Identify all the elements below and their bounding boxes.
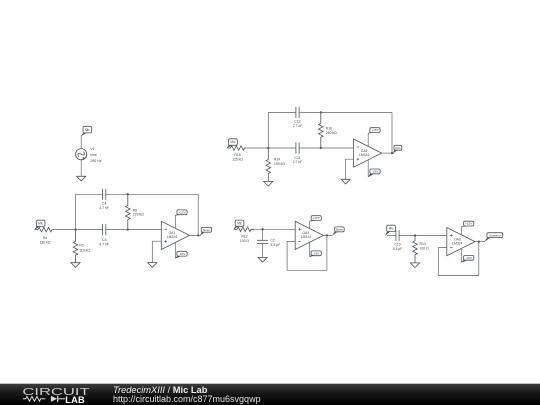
label R14 199 k&#937; xyxy=(274,158,285,166)
wire OA6 output xyxy=(475,241,485,243)
node R6 top xyxy=(127,193,129,195)
capacitor C2 xyxy=(257,240,268,243)
resistor R13 xyxy=(413,236,418,263)
label C11 2.7 nF xyxy=(293,156,303,164)
svg-text:+15V: +15V xyxy=(313,216,321,220)
svg-text:R14: R14 xyxy=(274,158,280,162)
label V1 value xyxy=(90,147,102,163)
flag -15V at OA5 xyxy=(368,169,380,177)
wire R12 to op-amp xyxy=(254,228,295,230)
wire R15 to node xyxy=(248,147,269,149)
wire top right segment xyxy=(299,111,392,113)
svg-text:290 Hz: 290 Hz xyxy=(90,159,102,163)
svg-text:Mic: Mic xyxy=(230,140,235,144)
capacitor C4 xyxy=(103,189,106,200)
label C10 3.3 &#181;F xyxy=(393,243,403,251)
wire OA6 V- supply xyxy=(460,249,462,263)
svg-text:C12: C12 xyxy=(294,120,300,124)
svg-text:R4: R4 xyxy=(43,236,47,240)
flag +15V at OA6 xyxy=(461,221,474,227)
op-amp OA6 xyxy=(447,228,475,256)
ground below R14 xyxy=(264,181,273,186)
svg-text:3.3 µF: 3.3 µF xyxy=(393,247,403,251)
wire C2 bottom lead xyxy=(262,244,264,258)
CircuitLab logo CIRCUIT xyxy=(22,387,89,398)
wire node2 to op-amp xyxy=(321,147,354,149)
wire C10 left lead xyxy=(387,235,396,237)
wire OA5 output xyxy=(382,152,394,154)
wire OA4 V+ supply xyxy=(309,221,311,228)
flag -15V at OA6 xyxy=(461,255,474,262)
wire C2 top lead xyxy=(262,229,264,240)
svg-text:http://circuitlab.com/c877mu6s: http://circuitlab.com/c877mu6svgqwp xyxy=(113,394,261,404)
ground at OA1 + input xyxy=(148,263,157,268)
wire OA6 feedback xyxy=(438,242,479,276)
flag Mic (input to R4) xyxy=(35,220,45,229)
svg-text:LM324: LM324 xyxy=(301,235,311,239)
op-amp OA1 xyxy=(161,221,189,249)
svg-text:V1: V1 xyxy=(90,147,94,151)
resistor R16 xyxy=(319,112,324,148)
capacitor C3 xyxy=(103,224,106,235)
flag Mic (input to C10) xyxy=(385,225,395,235)
wire OA5 V- supply xyxy=(367,160,369,177)
wire OA1 V+ supply xyxy=(174,215,176,228)
wire V1 top xyxy=(80,136,82,149)
svg-text:250 kΩ: 250 kΩ xyxy=(326,131,337,135)
wire feedback vertical right xyxy=(391,112,393,153)
wire node to C3 xyxy=(76,229,103,231)
voltage source V1 (sine 290 Hz) xyxy=(76,149,87,160)
wire node2 to op-amp C xyxy=(128,229,162,231)
label R16 250 k&#937; xyxy=(326,127,337,135)
svg-text:100 Ω: 100 Ω xyxy=(420,247,430,251)
flag Mic (net label at V1 top) xyxy=(81,126,92,136)
wire top left segment xyxy=(268,111,296,113)
svg-text:Mic: Mic xyxy=(38,221,43,225)
wire node to C11 xyxy=(268,147,296,149)
node OA4 output xyxy=(326,234,328,236)
node R16 top xyxy=(320,111,322,113)
svg-text:C3: C3 xyxy=(102,238,106,242)
wire V1 bottom xyxy=(80,160,82,177)
svg-text:-15V: -15V xyxy=(465,256,472,260)
node C11/R16/op-amp xyxy=(320,147,322,149)
svg-text:4.7 nF: 4.7 nF xyxy=(99,242,109,246)
svg-text:C4: C4 xyxy=(102,202,106,206)
label R3 119 k&#937; xyxy=(79,244,90,253)
label R4 116 k&#937; xyxy=(40,236,51,244)
footer title TredecimXIII / Mic Lab xyxy=(113,385,208,395)
resistor R14 xyxy=(266,148,271,181)
svg-text:-15V: -15V xyxy=(313,251,320,255)
resistor R15 xyxy=(227,146,247,151)
label C4 4.7 nF xyxy=(99,202,109,210)
flag +15V at OA5 xyxy=(368,128,380,134)
svg-text:Mic: Mic xyxy=(85,128,90,132)
node R12/C2 xyxy=(261,228,263,230)
svg-text:R15: R15 xyxy=(234,153,240,157)
flag Mic (input to R15) xyxy=(227,139,237,148)
svg-text:LM324: LM324 xyxy=(359,153,369,157)
CircuitLab logo resistor-diode squiggle xyxy=(23,396,65,402)
svg-text:sine: sine xyxy=(90,153,97,157)
label R13 100 &#937; xyxy=(420,242,430,250)
svg-text:R13: R13 xyxy=(420,242,426,246)
svg-text:119 kΩ: 119 kΩ xyxy=(79,248,90,252)
label C3 4.7 nF xyxy=(99,238,109,246)
svg-text:C11: C11 xyxy=(295,156,301,160)
wire OA6 V+ supply xyxy=(460,227,462,235)
svg-text:LAB: LAB xyxy=(65,395,85,405)
svg-text:Soprano: Soprano xyxy=(489,233,501,237)
wire OA4 output xyxy=(323,234,332,236)
node R15/R14/C11/feedback xyxy=(267,147,269,149)
footer bar xyxy=(0,384,540,405)
svg-text:Alto: Alto xyxy=(395,146,401,150)
flag -15V at OA4 xyxy=(310,251,322,257)
svg-text:-15V: -15V xyxy=(179,252,186,256)
svg-text:C2: C2 xyxy=(270,238,274,242)
flag Alto (output) xyxy=(393,145,402,153)
ground at OA5 + input xyxy=(341,179,350,184)
svg-text:LM324: LM324 xyxy=(452,241,462,245)
wire feedback left vertical C xyxy=(75,194,77,229)
svg-text:+15V: +15V xyxy=(371,128,379,132)
wire feedback left vertical xyxy=(267,112,269,148)
wire C3 to node2 C xyxy=(106,229,128,231)
svg-text:Bass: Bass xyxy=(336,227,343,231)
node OA1 output xyxy=(197,234,199,236)
wire OA5 + input xyxy=(346,159,354,179)
resistor R12 xyxy=(234,227,254,232)
svg-text:R16: R16 xyxy=(326,127,332,131)
wire OA1 + input xyxy=(152,241,161,262)
label C12 2.7 nF xyxy=(293,120,303,128)
flag Bass (output) xyxy=(332,227,344,235)
svg-text:2.7 nF: 2.7 nF xyxy=(293,124,303,128)
flag Tenor (output) xyxy=(200,227,211,235)
node C10/R13 xyxy=(414,234,416,236)
capacitor C11 xyxy=(296,142,299,153)
wire OA1 output xyxy=(190,234,201,236)
node C3/R6/op-amp xyxy=(127,228,129,230)
node OA6 output xyxy=(478,240,480,242)
wire OA4 feedback xyxy=(287,235,327,270)
capacitor C10 xyxy=(396,230,399,241)
svg-text:Mic: Mic xyxy=(237,221,242,225)
svg-text:Tenor: Tenor xyxy=(203,228,211,232)
wire R4 to node xyxy=(55,229,75,231)
svg-text:3.3 µF: 3.3 µF xyxy=(270,243,280,247)
svg-text:+15V: +15V xyxy=(178,210,186,214)
svg-text:100 Ω: 100 Ω xyxy=(240,239,250,243)
label R12 100 &#937; xyxy=(240,235,250,243)
footer url xyxy=(113,394,261,404)
wire C10 to op-amp xyxy=(399,235,447,237)
capacitor C12 xyxy=(296,107,299,118)
svg-text:LM324: LM324 xyxy=(167,235,177,239)
wire C11 to node2 xyxy=(299,147,321,149)
ground below R13 xyxy=(410,263,419,268)
flag +15V at OA4 xyxy=(310,216,322,222)
wire top right segment C xyxy=(106,193,198,195)
wire OA5 V+ supply xyxy=(367,133,369,146)
node R4/R3/C3/feedback xyxy=(74,228,76,230)
flag +15V at OA1 xyxy=(175,210,187,216)
wire feedback vertical right C xyxy=(197,194,199,235)
wire top left segment C xyxy=(76,193,103,195)
CircuitLab logo LAB xyxy=(65,395,85,405)
svg-text:199 kΩ: 199 kΩ xyxy=(274,162,285,166)
wire OA4 V- supply xyxy=(309,242,311,257)
op-amp OA4 xyxy=(295,221,323,249)
svg-text:C10: C10 xyxy=(394,243,400,247)
svg-text:116 kΩ: 116 kΩ xyxy=(40,241,51,245)
svg-text:4.7 nF: 4.7 nF xyxy=(99,206,109,210)
resistor R4 xyxy=(35,227,55,232)
label R6 229 k&#937; xyxy=(133,208,144,216)
svg-text:-15V: -15V xyxy=(372,170,379,174)
svg-text:R12: R12 xyxy=(241,235,247,239)
flag -15V at OA1 xyxy=(175,251,187,258)
wire OA1 V- supply xyxy=(174,243,176,259)
svg-text:Mic: Mic xyxy=(389,227,394,231)
ground below R3 xyxy=(71,263,80,268)
svg-text:229 kΩ: 229 kΩ xyxy=(133,213,144,217)
svg-text:+15V: +15V xyxy=(465,222,473,226)
ground below V1 xyxy=(77,176,86,181)
resistor R3 xyxy=(73,230,78,263)
label R15 125 k&#937; xyxy=(232,153,243,161)
svg-text:R6: R6 xyxy=(133,208,137,212)
flag Mic (input to R12) xyxy=(234,220,244,229)
svg-text:2.7 nF: 2.7 nF xyxy=(293,160,303,164)
ground below C2 xyxy=(258,257,267,262)
svg-text:125 kΩ: 125 kΩ xyxy=(232,157,243,161)
resistor R6 xyxy=(126,194,131,229)
op-amp OA5 xyxy=(354,139,382,167)
svg-text:R3: R3 xyxy=(79,244,83,248)
node OA5 output xyxy=(391,152,393,154)
flag Soprano (output) xyxy=(485,233,503,242)
label C2 3.3 &#181;F xyxy=(270,238,280,246)
